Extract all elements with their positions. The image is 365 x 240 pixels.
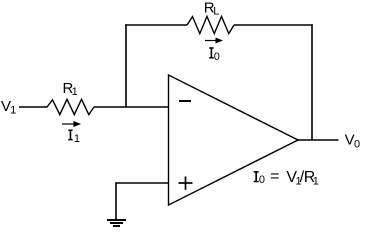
svg-text:1: 1 bbox=[74, 133, 80, 145]
label RL bbox=[204, 0, 220, 18]
wire: feedback top right bbox=[234, 24, 313, 26]
svg-text:1: 1 bbox=[10, 105, 16, 117]
label I1 bbox=[68, 130, 80, 146]
resistor R1 bbox=[47, 99, 94, 114]
wire: ground drop bbox=[115, 182, 117, 220]
label equation I0 = V1/R1 bbox=[254, 168, 319, 187]
svg-text:L: L bbox=[213, 6, 219, 18]
svg-text:1: 1 bbox=[72, 86, 78, 98]
arrow I0 bbox=[205, 38, 223, 44]
svg-text:=: = bbox=[270, 168, 279, 185]
arrow I1 bbox=[62, 121, 81, 127]
wire: feedback left vertical bbox=[125, 24, 127, 107]
wire: feedback right vertical bbox=[311, 24, 313, 140]
resistor RL bbox=[187, 16, 234, 33]
op-amp minus sign bbox=[179, 100, 191, 102]
label I0 bbox=[209, 47, 220, 62]
svg-text:0: 0 bbox=[214, 51, 220, 63]
op-amp plus sign bbox=[179, 177, 193, 190]
label V1 bbox=[1, 98, 16, 117]
wire: output bbox=[298, 139, 339, 141]
svg-text:0: 0 bbox=[354, 139, 360, 151]
svg-text:0: 0 bbox=[259, 174, 265, 186]
wire: feedback top left bbox=[125, 24, 187, 26]
svg-text:1: 1 bbox=[313, 175, 319, 187]
ground bbox=[107, 220, 126, 226]
wire: R1 to op-amp inverting input bbox=[94, 106, 169, 108]
wire: input from V1 to R1 bbox=[19, 106, 48, 108]
wire: non-inverting input bbox=[116, 182, 169, 184]
op-amp U1 triangle bbox=[169, 75, 299, 205]
label V0 bbox=[345, 131, 361, 150]
label R1 bbox=[63, 80, 78, 98]
